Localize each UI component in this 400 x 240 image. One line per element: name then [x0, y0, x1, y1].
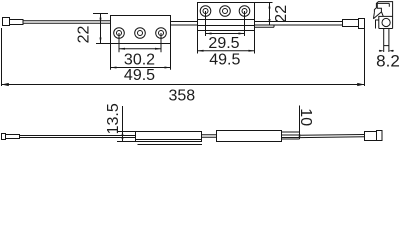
gearbox block 1 (top view) — [111, 16, 171, 44]
svg-text:10: 10 — [297, 108, 314, 126]
dimension 10: dimension line — [299, 106, 301, 140]
detail body square — [379, 16, 393, 28]
dimension 8.2 tails — [379, 50, 394, 52]
dimension 358: extension lines — [2, 28, 365, 86]
dimension 49.5 right: dimension line — [198, 50, 255, 52]
svg-text:13.5: 13.5 — [105, 103, 122, 134]
block 2 internal lines — [198, 20, 255, 26]
dimension 13.5: extension lines — [117, 132, 136, 142]
hole 2 of block 1 — [135, 28, 146, 39]
dimension 22 left: arrows — [100, 14, 102, 44]
svg-text:8.2: 8.2 — [376, 52, 400, 71]
dimension 358: arrows — [2, 83, 365, 86]
dimension 22 right: dimension line — [269, 3, 271, 26]
detail jaw diagonal — [373, 12, 383, 19]
hole 1 of block 1 — [114, 28, 125, 39]
end piece profile detail: top bar and right edge — [374, 2, 392, 29]
flange extra line (top view) — [255, 25, 275, 27]
svg-text:22: 22 — [273, 5, 290, 23]
dimension 49.5 left: dimension line — [111, 67, 171, 69]
wire rod left segment (top view) — [23, 21, 111, 24]
gearbox block 2 (top view) — [198, 3, 255, 31]
svg-text:358: 358 — [168, 87, 195, 104]
detail mouth notch — [377, 3, 389, 11]
dimension 29.5: arrows — [206, 33, 245, 35]
dimension 49.5 right: extension lines — [198, 31, 255, 54]
dimension 13.5: arrows — [121, 132, 123, 142]
hole 1 of block 2 — [200, 6, 211, 17]
block A internal line — [136, 139, 202, 141]
wire rod right segment (top view) — [255, 22, 343, 26]
svg-text:30.2: 30.2 — [124, 51, 155, 68]
dimension 22 right: extension line — [255, 2, 273, 4]
housing block B (bottom view) — [217, 131, 282, 142]
wire rod left (bottom view) — [20, 136, 136, 138]
wire rod middle segment (top view) — [171, 22, 198, 26]
hole 3 of block 2 — [239, 6, 250, 17]
dimension 49.5 right: arrows — [198, 50, 255, 52]
dimension 13.5: dimension line — [122, 106, 124, 142]
dimension 8.2 arrows — [379, 50, 393, 52]
hole 2 of block 2 — [220, 6, 231, 17]
dimension 30.2: dimension line — [119, 48, 161, 50]
right collar (top view) — [343, 20, 359, 27]
svg-text:49.5: 49.5 — [209, 52, 240, 69]
dimension 30.2: extension lines — [119, 33, 161, 52]
dimension 29.5: extension lines — [206, 11, 245, 36]
detail body circle — [382, 18, 390, 26]
svg-text:29.5: 29.5 — [208, 35, 239, 52]
dimension 30.2: arrows — [119, 48, 161, 50]
dimension 49.5 left: arrows — [111, 67, 171, 69]
svg-text:49.5: 49.5 — [124, 67, 155, 84]
right end cap (bottom view) — [377, 131, 383, 141]
dimension 22 left: bottom extension line — [96, 43, 110, 45]
svg-text:22: 22 — [76, 26, 93, 44]
detail foot — [376, 20, 379, 29]
wire rod right (bottom view) — [300, 135, 365, 138]
dimension 22 left: top extension line — [93, 13, 108, 15]
dimension 49.5 left: extension lines — [111, 44, 171, 70]
dimension 22 right: arrows — [269, 3, 271, 26]
hole 3 of block 1 — [156, 28, 167, 39]
wire rod middle (bottom view) — [202, 135, 217, 138]
dimension 22 left: dimension line — [100, 14, 102, 44]
flat bar tail right of block B (bottom view) — [282, 132, 300, 139]
left end cap (bottom view) — [2, 134, 6, 140]
dimension 29.5: dimension line — [206, 33, 245, 35]
block A lower detached line — [138, 144, 203, 146]
right end cap (top view) — [359, 19, 365, 29]
right collar (bottom view) — [365, 132, 377, 141]
left end cap (top view) — [3, 18, 10, 26]
left collar (bottom view) — [6, 135, 20, 139]
detail narrow lower part — [384, 29, 389, 53]
housing block A (bottom view) — [136, 132, 202, 142]
dimension 10: arrows — [298, 132, 300, 139]
left collar (top view) — [10, 20, 24, 25]
dimension 358: dimension line — [2, 84, 365, 86]
